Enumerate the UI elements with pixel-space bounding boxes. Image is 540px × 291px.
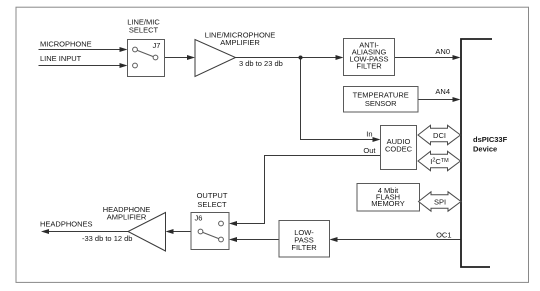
- svg-text:DCI: DCI: [433, 131, 446, 140]
- svg-text:LINE INPUT: LINE INPUT: [40, 54, 82, 63]
- svg-text:J6: J6: [195, 214, 203, 223]
- svg-text:FILTER: FILTER: [291, 243, 317, 252]
- svg-text:Device: Device: [473, 145, 497, 154]
- svg-text:SELECT: SELECT: [129, 26, 159, 35]
- svg-text:HEADPHONES: HEADPHONES: [40, 220, 93, 229]
- svg-text:AMPLIFIER: AMPLIFIER: [220, 38, 260, 47]
- svg-text:CODEC: CODEC: [385, 145, 413, 154]
- svg-text:OC1: OC1: [436, 231, 451, 240]
- svg-text:J7: J7: [153, 41, 161, 50]
- svg-text:MICROPHONE: MICROPHONE: [40, 40, 92, 49]
- svg-text:In: In: [366, 130, 372, 139]
- svg-text:OUTPUT: OUTPUT: [197, 191, 228, 200]
- svg-text:AN0: AN0: [435, 47, 450, 56]
- svg-text:SPI: SPI: [434, 198, 446, 207]
- svg-text:Out: Out: [363, 146, 376, 155]
- svg-text:dsPIC33F: dsPIC33F: [473, 135, 508, 144]
- svg-text:-33 db to 12 db: -33 db to 12 db: [82, 234, 132, 243]
- svg-text:SELECT: SELECT: [197, 200, 227, 209]
- svg-text:SENSOR: SENSOR: [365, 99, 397, 108]
- svg-text:AMPLIFIER: AMPLIFIER: [107, 213, 147, 222]
- svg-text:FILTER: FILTER: [356, 62, 382, 71]
- svg-text:3 db to 23 db: 3 db to 23 db: [239, 59, 283, 68]
- svg-text:MEMORY: MEMORY: [371, 199, 405, 208]
- svg-text:AN4: AN4: [435, 87, 450, 96]
